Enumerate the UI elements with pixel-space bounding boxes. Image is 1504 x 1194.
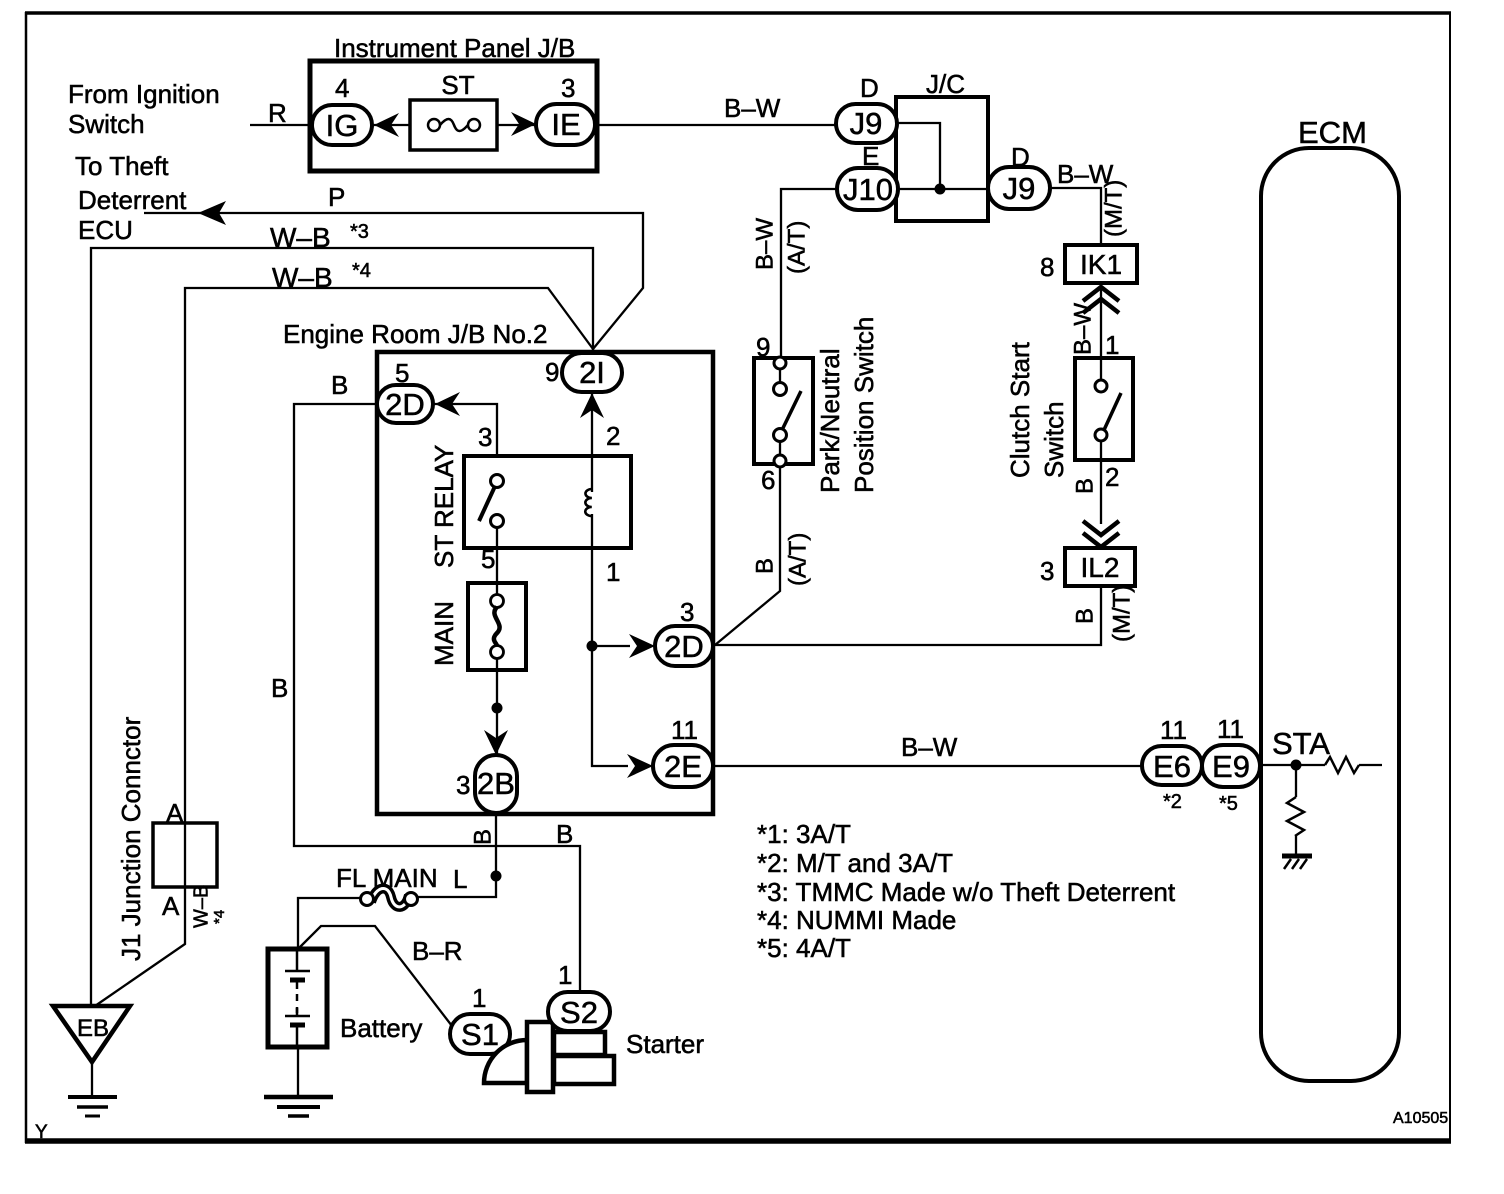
starter body xyxy=(484,1022,614,1092)
wire STA node xyxy=(1260,764,1325,766)
svg-text:1: 1 xyxy=(558,960,572,990)
svg-text:Park/Neutral: Park/Neutral xyxy=(815,349,845,494)
flow arrow right at 2D3 xyxy=(629,634,655,658)
relay coil xyxy=(585,489,592,516)
svg-text:J/C: J/C xyxy=(926,69,965,99)
svg-text:(M/T): (M/T) xyxy=(1108,585,1135,642)
svg-text:W–B: W–B xyxy=(272,262,333,293)
svg-text:1: 1 xyxy=(1105,330,1119,360)
connector IE xyxy=(536,104,595,145)
svg-text:P: P xyxy=(328,182,345,212)
svg-text:2D: 2D xyxy=(664,629,704,664)
wire W-B *3 xyxy=(91,248,593,1007)
svg-text:B–R: B–R xyxy=(412,936,463,966)
P/N switch contacts xyxy=(774,357,802,467)
svg-text:Engine Room J/B No.2: Engine Room J/B No.2 xyxy=(283,319,547,349)
svg-text:IE: IE xyxy=(551,107,580,142)
fusible link FL MAIN symbol xyxy=(361,888,418,906)
flow arrow up at 2I xyxy=(580,393,604,418)
wire P/N down to 2D3 xyxy=(715,467,780,645)
connector J1 junction box xyxy=(153,823,217,887)
wire after resistor xyxy=(1359,764,1382,766)
fuse ST symbol xyxy=(428,119,480,131)
switch Park/Neutral Position Switch box xyxy=(754,358,813,464)
svg-text:J9: J9 xyxy=(850,106,883,141)
arrow on P wire xyxy=(198,201,226,225)
svg-text:J9: J9 xyxy=(1003,171,1036,206)
svg-text:ST RELAY: ST RELAY xyxy=(429,445,459,568)
svg-text:2I: 2I xyxy=(579,355,605,390)
wire resistor to chassis ground xyxy=(1295,836,1297,855)
svg-text:S2: S2 xyxy=(560,995,598,1030)
wire relay pin1 down xyxy=(592,514,628,766)
wire W-B *4 xyxy=(95,288,593,1006)
svg-text:B: B xyxy=(1071,478,1098,494)
fuse MAIN box xyxy=(468,583,526,670)
svg-text:EB: EB xyxy=(77,1015,109,1042)
svg-text:ST: ST xyxy=(441,70,474,100)
svg-text:11: 11 xyxy=(1160,715,1187,745)
svg-text:J10: J10 xyxy=(843,172,893,207)
svg-text:B–W: B–W xyxy=(1069,303,1096,355)
resistor vertical xyxy=(1287,797,1304,836)
svg-text:11: 11 xyxy=(671,715,698,745)
svg-text:E6: E6 xyxy=(1153,749,1191,784)
wire relay pin5 to MAIN fuse xyxy=(496,527,498,595)
connector 2I xyxy=(562,353,622,392)
svg-text:Switch: Switch xyxy=(1039,401,1069,478)
svg-text:Deterrent: Deterrent xyxy=(78,185,187,215)
junction dot below 2B xyxy=(491,871,502,882)
relay switch contacts xyxy=(479,475,504,528)
svg-text:3: 3 xyxy=(478,422,492,452)
notes list xyxy=(757,819,1176,963)
svg-text:2B: 2B xyxy=(477,766,515,801)
svg-text:Switch: Switch xyxy=(68,109,145,139)
ground EB triangle xyxy=(53,1006,130,1062)
svg-text:W–B: W–B xyxy=(270,222,331,253)
J/C internal wires xyxy=(897,123,940,189)
svg-text:2: 2 xyxy=(606,421,620,451)
svg-text:B–W: B–W xyxy=(901,732,958,762)
connector J9 right xyxy=(988,167,1050,209)
connector IG xyxy=(312,105,372,145)
svg-text:11: 11 xyxy=(1217,714,1244,744)
wire 2I to relay coil xyxy=(591,391,593,492)
flow arrow right at IE xyxy=(511,112,536,136)
svg-text:S1: S1 xyxy=(461,1017,499,1052)
svg-text:W–B: W–B xyxy=(190,885,212,928)
connector 2D pin3 xyxy=(655,626,713,666)
Engine Room J/B No.2 box xyxy=(377,352,713,814)
svg-text:IG: IG xyxy=(326,108,359,143)
svg-text:B: B xyxy=(751,558,778,574)
svg-text:A: A xyxy=(166,798,184,828)
svg-text:STA: STA xyxy=(1272,726,1330,761)
wire 2D5 to ST relay pin3 xyxy=(433,404,497,458)
flow arrow down at 2B xyxy=(484,730,508,755)
svg-text:MAIN: MAIN xyxy=(429,601,459,666)
junction dot coil wire xyxy=(587,641,598,652)
svg-text:From Ignition: From Ignition xyxy=(68,79,220,109)
connector IK1 box xyxy=(1065,245,1137,283)
svg-text:ECM: ECM xyxy=(1298,115,1367,150)
Instrument Panel J/B box xyxy=(310,61,597,171)
connector E9 xyxy=(1202,745,1260,787)
connector S2 xyxy=(548,992,610,1031)
wire 2B to FL MAIN node xyxy=(417,814,496,897)
svg-text:*4: NUMMI Made: *4: NUMMI Made xyxy=(757,905,956,935)
wire FL MAIN to battery xyxy=(298,898,361,950)
junction connector J/C box xyxy=(896,97,988,221)
clutch switch contacts xyxy=(1095,358,1121,524)
svg-text:B–W: B–W xyxy=(724,93,781,123)
svg-text:4: 4 xyxy=(335,73,349,103)
svg-text:8: 8 xyxy=(1040,252,1054,282)
wire B left branch from 2D5 to S2 xyxy=(294,404,580,992)
svg-text:9: 9 xyxy=(545,357,559,387)
svg-text:1: 1 xyxy=(606,557,620,587)
connector 2D pin5 xyxy=(377,385,433,423)
svg-text:*2: *2 xyxy=(1163,791,1182,813)
battery box xyxy=(268,949,327,1047)
connector J10 xyxy=(837,168,898,210)
switch Clutch Start Switch box xyxy=(1075,358,1133,460)
wire J9 to IK1 xyxy=(1050,188,1101,247)
svg-text:E9: E9 xyxy=(1212,749,1250,784)
wire IE to J9 B-W xyxy=(595,124,838,126)
junction dot in J/C xyxy=(935,184,946,195)
svg-text:D: D xyxy=(860,73,879,103)
svg-text:Clutch Start: Clutch Start xyxy=(1005,341,1035,478)
svg-text:IL2: IL2 xyxy=(1081,552,1120,583)
svg-text:*4: *4 xyxy=(352,260,371,282)
wire IG to ST fuse xyxy=(372,124,410,126)
svg-text:*1: 3A/T: *1: 3A/T xyxy=(757,819,851,849)
wire EB to ground xyxy=(91,1062,93,1096)
svg-text:A: A xyxy=(162,891,180,921)
svg-text:IK1: IK1 xyxy=(1080,249,1122,280)
svg-text:Battery: Battery xyxy=(340,1013,422,1043)
svg-text:J1 Junction Connctor: J1 Junction Connctor xyxy=(116,716,146,961)
svg-text:B: B xyxy=(1071,608,1098,624)
svg-text:6: 6 xyxy=(761,465,775,495)
ground symbol under EB xyxy=(68,1097,117,1116)
svg-text:*3: *3 xyxy=(350,221,369,243)
svg-text:2: 2 xyxy=(1105,462,1119,492)
connector 2E xyxy=(653,745,713,787)
svg-text:B–W: B–W xyxy=(751,218,778,270)
svg-text:B: B xyxy=(331,370,348,400)
svg-text:Y: Y xyxy=(35,1122,48,1143)
svg-text:B: B xyxy=(556,819,573,849)
wire ST fuse to IE xyxy=(497,124,538,126)
fuse ST box xyxy=(410,100,497,150)
connector chevrons below IK1 xyxy=(1083,287,1119,313)
resistor horizontal xyxy=(1325,757,1359,773)
wire battery to ground xyxy=(297,1047,299,1096)
svg-text:*3: TMMC Made w/o Theft Deterr: *3: TMMC Made w/o Theft Deterrent xyxy=(757,877,1176,907)
connector S1 xyxy=(450,1014,510,1054)
connector E6 xyxy=(1142,746,1202,785)
wire P to theft deterrent ECU xyxy=(144,213,643,349)
fuse MAIN symbol xyxy=(491,595,504,659)
svg-text:To Theft: To Theft xyxy=(75,151,169,181)
chassis ground symbol xyxy=(1282,856,1312,869)
svg-text:3: 3 xyxy=(561,73,575,103)
svg-text:B: B xyxy=(271,673,288,703)
flow arrow right at 2E xyxy=(627,754,653,778)
svg-text:L: L xyxy=(453,864,467,894)
connector chevrons above IL2 xyxy=(1083,521,1119,547)
flow arrow left at IG xyxy=(374,113,399,137)
svg-text:2D: 2D xyxy=(385,387,425,422)
svg-text:1: 1 xyxy=(472,983,486,1013)
wire J10 to park/neutral switch xyxy=(781,189,837,360)
svg-text:B: B xyxy=(469,829,496,845)
svg-text:Position Switch: Position Switch xyxy=(849,317,879,493)
svg-text:*2: M/T and 3A/T: *2: M/T and 3A/T xyxy=(757,848,953,878)
svg-text:R: R xyxy=(268,98,287,128)
svg-text:3: 3 xyxy=(680,597,694,627)
ECM body xyxy=(1261,148,1399,1081)
relay ST RELAY box xyxy=(464,456,631,548)
connector 2B xyxy=(475,755,517,813)
wire B-R battery to S1 xyxy=(299,926,452,1026)
junction dot xyxy=(492,703,503,714)
svg-text:(A/T): (A/T) xyxy=(783,221,810,274)
svg-text:*4: *4 xyxy=(211,910,228,924)
junction dot STA xyxy=(1291,760,1302,771)
wire R into IG xyxy=(250,124,314,126)
connector IL2 box xyxy=(1065,548,1135,586)
wire B-W from 2E to E6 xyxy=(713,765,1144,767)
wire IL2 down to 2D3 xyxy=(713,586,1101,645)
ground symbol under battery xyxy=(264,1097,333,1116)
svg-text:(M/T): (M/T) xyxy=(1100,180,1127,237)
svg-text:2E: 2E xyxy=(664,749,702,784)
svg-text:5: 5 xyxy=(481,544,495,574)
wire MAIN to 2B xyxy=(496,658,498,756)
svg-text:ECU: ECU xyxy=(78,215,133,245)
wire STA to pull-down resistor xyxy=(1295,765,1297,797)
svg-text:*5: *5 xyxy=(1219,793,1238,815)
svg-text:3: 3 xyxy=(456,770,470,800)
wire IK1 to clutch switch xyxy=(1100,283,1102,360)
svg-text:*5: 4A/T: *5: 4A/T xyxy=(757,933,851,963)
svg-text:A10505: A10505 xyxy=(1393,1110,1448,1127)
svg-text:Starter: Starter xyxy=(626,1029,704,1059)
connector J9 top xyxy=(836,104,897,143)
flow arrow left at 2D5 xyxy=(435,392,460,416)
wire branch to 2D3 xyxy=(592,645,630,647)
battery cells xyxy=(285,949,310,1047)
svg-text:(A/T): (A/T) xyxy=(784,533,811,586)
svg-text:3: 3 xyxy=(1040,556,1054,586)
